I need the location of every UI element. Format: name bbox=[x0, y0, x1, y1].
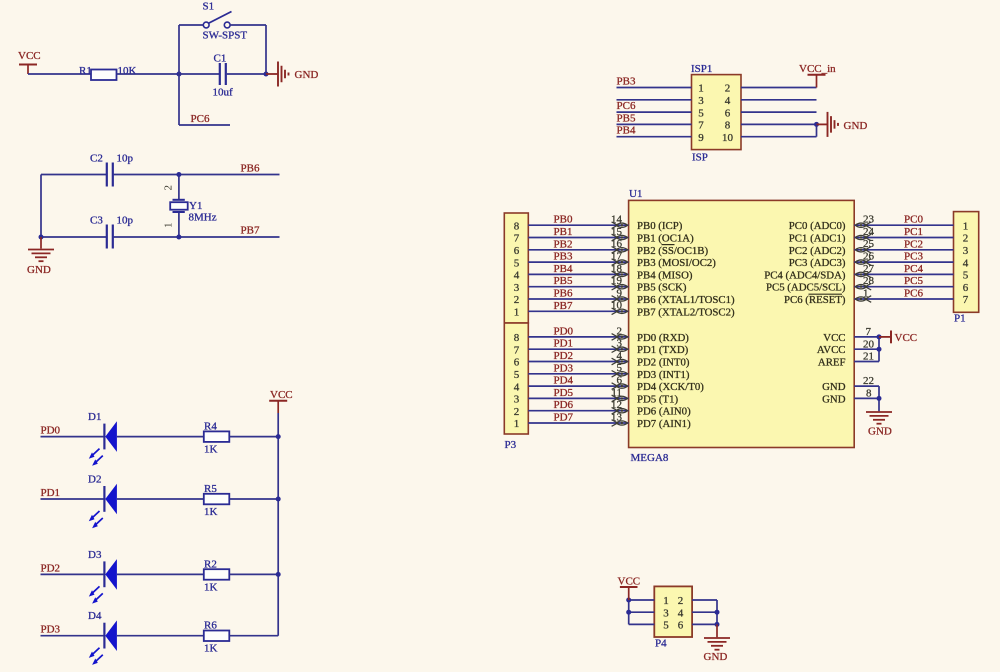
svg-text:10p: 10p bbox=[117, 153, 134, 165]
wire VCC rail bbox=[277, 413, 279, 636]
wire P4 pin 1 bbox=[629, 599, 655, 601]
svg-text:3: 3 bbox=[963, 245, 969, 257]
svg-text:PD3 (INT1): PD3 (INT1) bbox=[637, 369, 690, 381]
wire R1 to node bbox=[117, 73, 180, 75]
svg-text:R6: R6 bbox=[204, 620, 217, 632]
wire PB6 P3 to U1 bbox=[528, 298, 628, 300]
pin glyph PC2 bbox=[855, 248, 867, 252]
svg-text:PB7: PB7 bbox=[554, 300, 573, 312]
wire PB6 left segment bbox=[41, 174, 106, 176]
pin glyph PB0 bbox=[612, 222, 618, 229]
svg-text:PC4 (ADC4/SDA): PC4 (ADC4/SDA) bbox=[764, 269, 846, 281]
svg-text:1K: 1K bbox=[204, 506, 218, 518]
svg-text:4: 4 bbox=[963, 257, 969, 269]
svg-text:1: 1 bbox=[514, 307, 520, 319]
svg-text:22: 22 bbox=[863, 375, 874, 387]
svg-text:8: 8 bbox=[514, 220, 520, 232]
wire R4 to rail bbox=[229, 436, 278, 438]
svg-text:4: 4 bbox=[725, 95, 731, 107]
svg-text:PC2: PC2 bbox=[904, 238, 923, 250]
capacitor C2 bbox=[106, 163, 108, 187]
svg-text:1K: 1K bbox=[204, 643, 218, 655]
wire PD4 P3 to U1 bbox=[528, 385, 628, 387]
svg-text:PD2 (INT0): PD2 (INT0) bbox=[637, 357, 690, 369]
node junction VCC/stub bbox=[877, 334, 882, 339]
svg-text:PD1 (TXD): PD1 (TXD) bbox=[637, 344, 689, 356]
node junction ISP GND bbox=[814, 122, 819, 127]
connector P3 box upper bbox=[504, 213, 528, 323]
pin glyph PD2 bbox=[612, 358, 618, 365]
pin glyph PC3 bbox=[855, 260, 867, 264]
LED D2 light arrows bbox=[92, 511, 100, 519]
wire ISP pin 10 bbox=[741, 136, 817, 138]
wire PB7 left segment bbox=[41, 236, 106, 238]
pin glyph PD7 bbox=[612, 420, 618, 427]
svg-text:PD1: PD1 bbox=[554, 338, 574, 350]
node junction R1/C1/S1/PC6 bbox=[177, 72, 182, 77]
svg-text:2: 2 bbox=[725, 83, 731, 95]
wire PB6 right segment bbox=[114, 174, 280, 176]
svg-text:5: 5 bbox=[514, 257, 520, 269]
overline SS (PB2) bbox=[662, 244, 675, 246]
svg-text:6: 6 bbox=[963, 282, 969, 294]
svg-text:1: 1 bbox=[514, 418, 520, 430]
svg-text:VCC: VCC bbox=[270, 389, 293, 401]
LED D3 light arrows bbox=[92, 586, 100, 594]
resistor R5 bbox=[204, 494, 230, 505]
wire AREF stub bbox=[854, 361, 879, 363]
svg-text:PC3: PC3 bbox=[904, 251, 923, 263]
pin glyph PB4 bbox=[612, 271, 618, 278]
connector ISP1 box bbox=[692, 75, 742, 150]
svg-text:GND: GND bbox=[295, 69, 319, 81]
svg-text:PD6 (AIN0): PD6 (AIN0) bbox=[637, 406, 691, 418]
wire ISP pin 7 bbox=[617, 123, 692, 125]
wire PB2 P3 to U1 bbox=[528, 249, 628, 251]
svg-text:2: 2 bbox=[963, 233, 969, 245]
svg-text:PC6 (RESET): PC6 (RESET) bbox=[784, 294, 846, 306]
svg-text:5: 5 bbox=[963, 270, 969, 282]
svg-text:2: 2 bbox=[678, 595, 684, 607]
svg-text:PB4: PB4 bbox=[617, 125, 636, 137]
LED D2 bbox=[103, 486, 105, 512]
wire PC4 U1 to P1 bbox=[854, 273, 953, 275]
svg-text:MEGA8: MEGA8 bbox=[631, 452, 669, 464]
svg-text:1: 1 bbox=[663, 595, 669, 607]
svg-text:R2: R2 bbox=[204, 558, 217, 570]
node junction rail/R5 bbox=[276, 497, 281, 502]
svg-text:PB1: PB1 bbox=[554, 226, 573, 238]
pin glyph PD6 bbox=[612, 407, 618, 414]
wire PD2 P3 to U1 bbox=[528, 361, 628, 363]
svg-text:14: 14 bbox=[611, 214, 623, 226]
svg-text:PD3: PD3 bbox=[554, 362, 574, 374]
connector P3 box lower bbox=[504, 323, 528, 434]
wire PD7 P3 to U1 bbox=[528, 422, 628, 424]
wire ISP pin 9 bbox=[617, 136, 692, 138]
wire ISP pin 5 bbox=[617, 111, 692, 113]
wire PC1 U1 to P1 bbox=[854, 237, 953, 239]
svg-text:6: 6 bbox=[514, 245, 520, 257]
svg-text:7: 7 bbox=[698, 120, 704, 132]
svg-text:PB0: PB0 bbox=[554, 214, 573, 226]
pin glyph PD1 bbox=[612, 346, 618, 353]
svg-text:PB4 (MISO): PB4 (MISO) bbox=[637, 269, 693, 281]
svg-text:SW-SPST: SW-SPST bbox=[203, 30, 248, 42]
wire P4 pin 3 bbox=[629, 611, 655, 613]
svg-text:4: 4 bbox=[514, 270, 520, 282]
svg-text:PC0 (ADC0): PC0 (ADC0) bbox=[789, 220, 846, 232]
svg-text:GND: GND bbox=[704, 651, 728, 663]
wire left riser to switch bbox=[178, 25, 180, 74]
wire PC5 U1 to P1 bbox=[854, 286, 953, 288]
svg-text:PD3: PD3 bbox=[41, 624, 61, 636]
svg-text:C3: C3 bbox=[90, 215, 103, 227]
svg-text:Y1: Y1 bbox=[189, 200, 202, 212]
svg-text:PC1 (ADC1): PC1 (ADC1) bbox=[789, 233, 846, 245]
pin glyph PC0 bbox=[855, 223, 867, 227]
svg-text:ISP1: ISP1 bbox=[691, 63, 712, 75]
wire P4 pin 4 bbox=[692, 611, 717, 613]
svg-text:PB7 (XTAL2/TOSC2): PB7 (XTAL2/TOSC2) bbox=[637, 306, 735, 318]
wire top to switch bbox=[179, 24, 203, 26]
svg-text:17: 17 bbox=[611, 251, 623, 263]
svg-text:PC6: PC6 bbox=[617, 100, 636, 112]
connector P1 box bbox=[954, 212, 979, 313]
wire VCC to R1 bbox=[28, 73, 91, 75]
svg-text:10: 10 bbox=[611, 300, 623, 312]
svg-text:2: 2 bbox=[163, 185, 175, 191]
wire PD1 to D2 bbox=[41, 498, 105, 500]
resistor R1 bbox=[91, 70, 117, 81]
resistor R6 bbox=[204, 631, 230, 642]
wire right riser bbox=[265, 25, 267, 74]
connector P4 box bbox=[654, 586, 692, 637]
svg-text:PD0: PD0 bbox=[41, 425, 61, 437]
pin glyph PB1 bbox=[612, 234, 618, 241]
wire AVCC stub bbox=[854, 348, 879, 350]
wire ISP pin 6 bbox=[741, 111, 817, 113]
svg-text:8: 8 bbox=[725, 120, 731, 132]
wire ISP pin 4 bbox=[741, 99, 817, 101]
LED D1 bbox=[103, 424, 105, 450]
wire P4 pin 5 bbox=[629, 623, 655, 625]
ground GND (U1) bbox=[866, 411, 892, 413]
ground GND (crystal) bbox=[40, 237, 42, 249]
wire PB1 P3 to U1 bbox=[528, 237, 628, 239]
op-amp U1 body (MCU MEGA8) bbox=[629, 200, 855, 447]
svg-text:13: 13 bbox=[611, 411, 623, 423]
svg-text:1: 1 bbox=[963, 220, 969, 232]
wire D4 to R6 bbox=[117, 635, 204, 637]
svg-text:PD2: PD2 bbox=[41, 562, 61, 574]
svg-text:ISP: ISP bbox=[692, 152, 708, 164]
pin glyph PD0 bbox=[612, 334, 618, 341]
ground GND (ISP) bbox=[817, 123, 828, 125]
crystal Y1 bbox=[173, 199, 185, 201]
svg-text:PC1: PC1 bbox=[904, 226, 923, 238]
pin glyph PB2 bbox=[612, 247, 618, 254]
svg-text:GND: GND bbox=[868, 426, 892, 438]
capacitor C1 bbox=[219, 63, 221, 85]
wire D3 to R2 bbox=[117, 573, 204, 575]
svg-text:PB0 (ICP): PB0 (ICP) bbox=[637, 220, 683, 232]
wire PD6 P3 to U1 bbox=[528, 410, 628, 412]
wire PD2 to D3 bbox=[41, 573, 105, 575]
wire PD0 to D1 bbox=[41, 436, 105, 438]
svg-text:R1: R1 bbox=[79, 65, 92, 77]
svg-text:PB2 (SS/OC1B): PB2 (SS/OC1B) bbox=[637, 245, 709, 257]
svg-text:9: 9 bbox=[698, 132, 704, 144]
wire GND riser bbox=[878, 386, 880, 411]
svg-text:6: 6 bbox=[725, 107, 731, 119]
node junction P4 pin6 bbox=[715, 622, 720, 627]
pin glyph PB5 bbox=[612, 283, 618, 290]
wire left riser C2-C3 bbox=[40, 175, 42, 238]
pin glyph PD3 bbox=[612, 371, 618, 378]
svg-text:6: 6 bbox=[678, 620, 684, 632]
pin glyph PB7 bbox=[612, 308, 618, 315]
svg-text:VCC: VCC bbox=[18, 50, 41, 62]
svg-text:8: 8 bbox=[514, 332, 520, 344]
wire node to C1 bbox=[179, 73, 219, 75]
svg-text:GND: GND bbox=[822, 381, 846, 393]
switch S1 bbox=[203, 22, 209, 28]
node junction rail/R2 bbox=[276, 572, 281, 577]
svg-text:1: 1 bbox=[163, 223, 175, 229]
svg-text:5: 5 bbox=[514, 369, 520, 381]
wire D1 to R4 bbox=[117, 436, 204, 438]
wire PB0 P3 to U1 bbox=[528, 224, 628, 226]
wire PC6 U1 to P1 bbox=[854, 298, 953, 300]
svg-text:PD7: PD7 bbox=[554, 412, 574, 424]
wire ISP pin 8 bbox=[741, 123, 817, 125]
svg-text:PC6: PC6 bbox=[191, 113, 210, 125]
svg-text:10p: 10p bbox=[117, 215, 134, 227]
svg-text:PD6: PD6 bbox=[554, 399, 574, 411]
svg-text:D1: D1 bbox=[88, 411, 101, 423]
svg-text:8: 8 bbox=[866, 387, 872, 399]
pin glyph PC5 bbox=[855, 285, 867, 289]
wire PD3 P3 to U1 bbox=[528, 373, 628, 375]
svg-text:GND: GND bbox=[844, 120, 868, 132]
wire R5 to rail bbox=[229, 498, 278, 500]
wire PB5 P3 to U1 bbox=[528, 286, 628, 288]
svg-text:D2: D2 bbox=[88, 474, 101, 486]
wire ISP pin 2 bbox=[741, 87, 817, 89]
LED D4 bbox=[103, 623, 105, 649]
svg-text:PD5 (T1): PD5 (T1) bbox=[637, 393, 678, 405]
wire ISP pin 1 bbox=[617, 87, 692, 89]
svg-text:PC2 (ADC2): PC2 (ADC2) bbox=[789, 245, 846, 257]
svg-text:PB4: PB4 bbox=[554, 263, 573, 275]
svg-text:GND: GND bbox=[27, 264, 51, 276]
svg-text:P3: P3 bbox=[505, 439, 517, 451]
pin glyph PD5 bbox=[612, 395, 618, 402]
node junction rail/R4 bbox=[276, 434, 281, 439]
svg-text:18: 18 bbox=[611, 263, 623, 275]
node junction AVCC/stub bbox=[877, 347, 882, 352]
svg-text:PC4: PC4 bbox=[904, 263, 923, 275]
svg-text:PB3: PB3 bbox=[617, 76, 636, 88]
wire PD0 P3 to U1 bbox=[528, 336, 628, 338]
node junction P4 pin4 bbox=[715, 610, 720, 615]
wire PC2 U1 to P1 bbox=[854, 249, 953, 251]
svg-text:PB6 (XTAL1/TOSC1): PB6 (XTAL1/TOSC1) bbox=[637, 294, 735, 306]
svg-text:PB5: PB5 bbox=[617, 112, 636, 124]
svg-text:AVCC: AVCC bbox=[817, 344, 846, 356]
LED D1 light arrows bbox=[92, 449, 100, 457]
svg-text:2: 2 bbox=[514, 294, 520, 306]
wire R6 to rail bbox=[229, 635, 278, 637]
LED D4 light arrows bbox=[92, 648, 100, 656]
svg-text:S1: S1 bbox=[203, 1, 215, 13]
svg-text:10: 10 bbox=[722, 132, 734, 144]
svg-text:PD2: PD2 bbox=[554, 350, 574, 362]
svg-text:15: 15 bbox=[611, 226, 623, 238]
wire PD1 P3 to U1 bbox=[528, 348, 628, 350]
wire crystal top bbox=[178, 175, 180, 200]
svg-text:3: 3 bbox=[514, 394, 520, 406]
svg-text:P1: P1 bbox=[954, 313, 966, 325]
wire R2 to rail bbox=[229, 573, 278, 575]
svg-text:19: 19 bbox=[611, 275, 623, 287]
wire VCC riser bbox=[878, 337, 880, 362]
svg-text:PD5: PD5 bbox=[554, 387, 574, 399]
wire PC0 U1 to P1 bbox=[854, 224, 953, 226]
wire P4 pin 6 bbox=[692, 623, 717, 625]
svg-text:PB6: PB6 bbox=[241, 163, 260, 175]
svg-text:P4: P4 bbox=[655, 638, 667, 650]
pin glyph PC6 bbox=[855, 297, 867, 301]
svg-text:PD1: PD1 bbox=[41, 487, 61, 499]
node junction C1/S1/GND bbox=[264, 72, 269, 77]
wire node down to PC6 bbox=[178, 74, 180, 125]
node junction gnd/C3 bbox=[39, 235, 44, 240]
svg-text:PC6: PC6 bbox=[904, 288, 923, 300]
svg-text:5: 5 bbox=[698, 107, 704, 119]
svg-text:PC0: PC0 bbox=[904, 214, 923, 226]
svg-text:VCC: VCC bbox=[895, 332, 918, 344]
svg-text:PB5 (SCK): PB5 (SCK) bbox=[637, 282, 687, 294]
svg-text:16: 16 bbox=[611, 238, 623, 250]
wire PD5 P3 to U1 bbox=[528, 397, 628, 399]
wire PB7 right segment bbox=[114, 236, 280, 238]
svg-text:8MHz: 8MHz bbox=[189, 212, 217, 224]
pin glyph PB3 bbox=[612, 259, 618, 266]
svg-text:AREF: AREF bbox=[818, 357, 846, 369]
node junction GND/stub bbox=[877, 396, 882, 401]
overline RESET (PC6) bbox=[809, 293, 843, 295]
svg-text:1: 1 bbox=[698, 83, 704, 95]
svg-text:10uf: 10uf bbox=[213, 87, 234, 99]
svg-text:1K: 1K bbox=[204, 444, 218, 456]
svg-text:VCC: VCC bbox=[618, 576, 641, 588]
wire GND22 stub bbox=[854, 385, 879, 387]
wire C1 to gnd node bbox=[227, 73, 266, 75]
pin glyph PD4 bbox=[612, 383, 618, 390]
wire P4 left riser bbox=[628, 600, 630, 624]
pin glyph PB6 bbox=[612, 296, 618, 303]
svg-text:4: 4 bbox=[514, 381, 520, 393]
node junction Y1 top bbox=[176, 172, 181, 177]
svg-text:6: 6 bbox=[514, 357, 520, 369]
svg-text:3: 3 bbox=[663, 607, 669, 619]
svg-text:PD0 (RXD): PD0 (RXD) bbox=[637, 332, 689, 344]
svg-text:VCC_in: VCC_in bbox=[799, 63, 836, 75]
svg-text:PB7: PB7 bbox=[241, 225, 260, 237]
resistor R4 bbox=[204, 431, 230, 442]
wire PC3 U1 to P1 bbox=[854, 261, 953, 263]
svg-text:C2: C2 bbox=[90, 153, 103, 165]
ground GND (sideways, top-left) bbox=[277, 62, 279, 87]
svg-text:7: 7 bbox=[514, 344, 520, 356]
svg-text:PB2: PB2 bbox=[554, 238, 573, 250]
svg-text:PC5 (ADC5/SCL): PC5 (ADC5/SCL) bbox=[766, 282, 846, 294]
svg-text:PC5: PC5 bbox=[904, 275, 923, 287]
svg-text:PD4 (XCK/T0): PD4 (XCK/T0) bbox=[637, 381, 704, 393]
wire PB4 P3 to U1 bbox=[528, 273, 628, 275]
node junction P4 pin3 bbox=[626, 610, 631, 615]
wire to GND symbol bbox=[266, 73, 278, 75]
svg-text:2: 2 bbox=[514, 406, 520, 418]
svg-text:5: 5 bbox=[663, 620, 669, 632]
svg-text:PD4: PD4 bbox=[554, 375, 574, 387]
node junction Y1 bottom bbox=[176, 235, 181, 240]
svg-text:7: 7 bbox=[963, 294, 969, 306]
LED D3 bbox=[103, 561, 105, 587]
wire PC6 stub bbox=[179, 124, 230, 126]
wire GND8 stub bbox=[854, 397, 879, 399]
svg-text:GND: GND bbox=[822, 393, 846, 405]
wire switch to right riser bbox=[230, 24, 266, 26]
wire D2 to R5 bbox=[117, 498, 204, 500]
svg-text:PD0: PD0 bbox=[554, 325, 574, 337]
svg-text:PB6: PB6 bbox=[554, 288, 573, 300]
svg-text:PC3 (ADC3): PC3 (ADC3) bbox=[789, 257, 846, 269]
pin glyph PC1 bbox=[855, 235, 867, 239]
svg-text:U1: U1 bbox=[629, 188, 642, 200]
power VCC (U1) bbox=[879, 336, 891, 338]
svg-text:PD7 (AIN1): PD7 (AIN1) bbox=[637, 418, 691, 430]
svg-text:R4: R4 bbox=[204, 421, 217, 433]
pin glyph PC4 bbox=[855, 272, 867, 276]
ground GND (P4) bbox=[716, 624, 718, 637]
svg-text:R5: R5 bbox=[204, 483, 217, 495]
wire VCC stub bbox=[854, 336, 879, 338]
node junction P4 pin1 bbox=[626, 598, 631, 603]
svg-text:C1: C1 bbox=[214, 53, 227, 65]
svg-text:4: 4 bbox=[678, 607, 684, 619]
svg-text:PB3 (MOSI/OC2): PB3 (MOSI/OC2) bbox=[637, 257, 716, 269]
svg-text:3: 3 bbox=[698, 95, 704, 107]
svg-text:PB1 (OC1A): PB1 (OC1A) bbox=[637, 233, 694, 245]
svg-text:VCC: VCC bbox=[823, 332, 845, 344]
capacitor C3 bbox=[106, 225, 108, 249]
wire PD3 to D4 bbox=[41, 635, 105, 637]
svg-text:7: 7 bbox=[514, 233, 520, 245]
wire P4 pin 2 bbox=[692, 599, 717, 601]
resistor R2 bbox=[204, 569, 230, 580]
wire ISP pin 3 bbox=[617, 99, 692, 101]
svg-text:PB3: PB3 bbox=[554, 251, 573, 263]
svg-text:1K: 1K bbox=[204, 581, 218, 593]
wire P4 right riser bbox=[716, 600, 718, 624]
svg-text:D3: D3 bbox=[88, 549, 102, 561]
svg-text:10K: 10K bbox=[118, 65, 137, 77]
wire crystal bottom bbox=[178, 212, 180, 237]
wire PB7 P3 to U1 bbox=[528, 310, 628, 312]
